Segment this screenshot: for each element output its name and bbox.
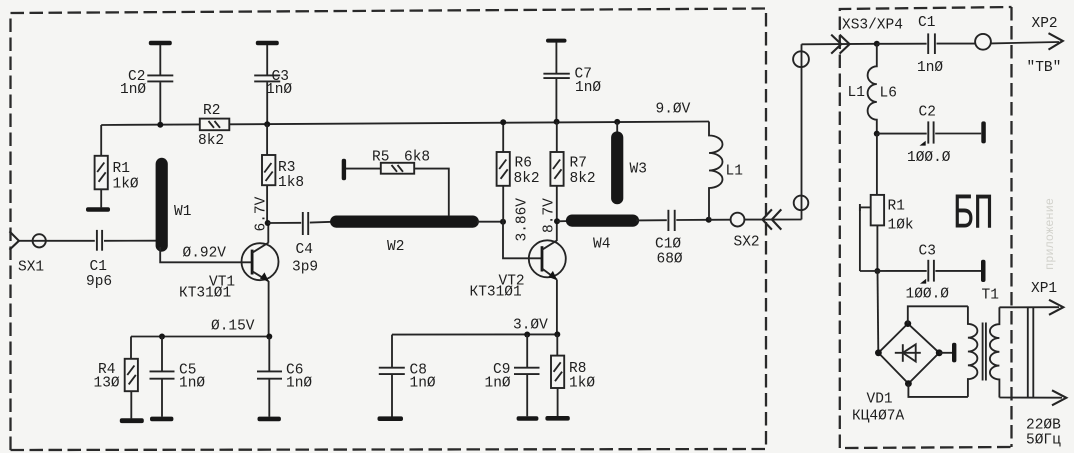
terminal bar C3 psu: [981, 260, 986, 282]
node C6 emitter: [266, 334, 272, 340]
rail 9.0V top bus left segment: [101, 123, 200, 126]
svg-text:R6: R6: [515, 156, 532, 172]
svg-text:1nØ: 1nØ: [575, 80, 601, 96]
svg-text:1nØ: 1nØ: [485, 376, 511, 392]
ground bar under C8: [378, 416, 404, 421]
resistor R1 1k0: [95, 125, 139, 207]
capacitor C7 1n0: [543, 42, 601, 121]
svg-text:КЦ4Ø7А: КЦ4Ø7А: [852, 409, 905, 425]
svg-text:C2: C2: [919, 105, 936, 121]
node XS3 L6: [874, 41, 880, 47]
svg-text:SX1: SX1: [18, 260, 44, 276]
wire L6 node down to R1: [876, 134, 878, 195]
node C7 R7 bus: [554, 119, 560, 125]
svg-text:Т1: Т1: [982, 288, 999, 304]
resistor R3 1k8: [262, 124, 304, 223]
amplifier unit dashed enclosure: [11, 9, 767, 451]
svg-text:C1: C1: [918, 15, 935, 31]
chassis bar above C7: [546, 39, 567, 43]
svg-text:1ØØ.Ø: 1ØØ.Ø: [907, 150, 951, 166]
power supply unit dashed enclosure: [840, 7, 1012, 448]
svg-text:VD1: VD1: [867, 392, 893, 408]
resistor R5 6k8: [346, 150, 430, 174]
capacitor C5 1n0: [150, 337, 206, 417]
resistor R8 1k0: [551, 334, 595, 416]
capacitor C8 1n0: [379, 335, 436, 417]
wire W1 to VT1 base: [160, 247, 252, 262]
wire bridge right to terminal: [939, 352, 952, 354]
wire C10 to L1 node: [676, 219, 708, 221]
wire node to C4: [268, 222, 302, 224]
ground bar under C9: [517, 416, 539, 421]
ground bar under R8: [545, 416, 569, 421]
svg-text:3.86V: 3.86V: [515, 198, 531, 242]
resistor R7 8k2: [550, 122, 595, 222]
capacitor C6 1n0: [257, 337, 312, 417]
wire VT2 collector up: [556, 221, 558, 241]
svg-text:1nØ: 1nØ: [917, 60, 943, 76]
svg-text:L1: L1: [848, 85, 865, 101]
capacitor C10 680: [655, 210, 683, 268]
svg-text:1ØØ.Ø: 1ØØ.Ø: [906, 287, 950, 303]
mains plug XP1 lower prong: [999, 390, 1066, 405]
wire bridge top to transformer: [908, 306, 968, 323]
svg-text:1k8: 1k8: [278, 175, 304, 191]
cable loop lower: [794, 196, 809, 211]
svg-text:XP2: XP2: [1032, 16, 1058, 32]
node VT1 collector 6.7V: [265, 220, 271, 226]
svg-text:R7: R7: [570, 156, 587, 172]
svg-text:1nØ: 1nØ: [410, 376, 436, 392]
svg-text:22ØВ: 22ØВ: [1026, 418, 1061, 434]
mains plug XP1 upper prong: [999, 281, 1063, 315]
node R6 W2 base VT2: [500, 219, 506, 225]
transformer T1 primary: [968, 306, 978, 397]
svg-text:C1: C1: [90, 259, 107, 275]
ground bar under R1: [86, 207, 110, 212]
node L6 C2psu: [874, 131, 880, 137]
svg-text:13Ø: 13Ø: [94, 376, 120, 392]
stripline W3: [617, 138, 647, 199]
node C10 L1 SX2: [706, 217, 712, 223]
svg-text:C3: C3: [919, 244, 936, 260]
wire bridge bottom to transformer: [908, 384, 968, 397]
3.0V emitter line VT2: [392, 333, 557, 335]
node C9: [524, 332, 530, 338]
wire C1 to W1: [104, 240, 156, 242]
svg-text:1nØ: 1nØ: [286, 376, 312, 392]
cable loop upper: [793, 51, 809, 67]
stripline W4: [557, 221, 633, 253]
inductor L1/L6 psu: [848, 44, 897, 134]
capacitor C4 3p9: [292, 212, 318, 276]
svg-text:1nØ: 1nØ: [179, 376, 205, 392]
ground bar under C6: [258, 417, 281, 422]
capacitor C2 100.0 psu: [877, 105, 981, 167]
svg-text:R3: R3: [278, 160, 295, 176]
node VT2 collector 8.7V: [554, 218, 560, 224]
wire VT1 collector to node: [267, 223, 269, 243]
svg-text:6k8: 6k8: [404, 150, 430, 166]
wire W2 to node: [477, 221, 503, 223]
svg-text:C4: C4: [296, 242, 313, 258]
coax cable top run: [802, 43, 877, 46]
node W3 bus: [614, 119, 620, 125]
svg-text:5ØГц: 5ØГц: [1026, 433, 1061, 449]
transistor VT2 KT3101: [470, 240, 566, 300]
ground bar under C5: [150, 417, 173, 422]
node R6 bus: [500, 119, 506, 125]
svg-text:3.ØV: 3.ØV: [513, 318, 548, 334]
ground bar under R4: [120, 418, 144, 423]
chassis bar above C3: [256, 41, 279, 45]
svg-text:68Ø: 68Ø: [657, 252, 683, 268]
node C5: [159, 334, 165, 340]
svg-text:XP1: XP1: [1031, 281, 1057, 297]
capacitor C2 1n0: [120, 45, 173, 125]
connector SX1: [10, 231, 46, 275]
svg-text:R5: R5: [372, 150, 389, 166]
0.15V emitter line VT1: [131, 336, 270, 338]
svg-text:W1: W1: [174, 204, 191, 220]
svg-text:"ТВ": "ТВ": [1027, 60, 1062, 76]
label 220V 50Hz: [1026, 418, 1061, 449]
resistor R2 8k2: [198, 103, 229, 149]
svg-text:9p6: 9p6: [86, 274, 112, 290]
wire VT2 emitter down: [556, 280, 558, 335]
svg-text:R1: R1: [113, 161, 130, 177]
coax cable riser: [801, 44, 803, 219]
diode bridge VD1 KC407A: [852, 320, 943, 424]
chassis bar above C2: [149, 41, 172, 45]
svg-text:1nØ: 1nØ: [120, 82, 146, 98]
svg-text:9.ØV: 9.ØV: [656, 102, 691, 118]
svg-text:8k2: 8k2: [198, 133, 224, 149]
node C2 bus: [157, 122, 163, 128]
svg-text:БП: БП: [953, 185, 994, 242]
cable loop at XP2: [975, 34, 991, 50]
svg-text:C1Ø: C1Ø: [655, 237, 681, 253]
svg-text:1Øk: 1Øk: [888, 218, 914, 234]
inductor L1: [709, 122, 743, 220]
svg-text:XS3/XP4: XS3/XP4: [842, 18, 903, 34]
svg-text:L6: L6: [880, 86, 897, 102]
svg-text:3p9: 3p9: [292, 260, 318, 276]
terminal bar of R5: [342, 159, 346, 181]
wire VT1 emitter down: [268, 281, 270, 337]
rail 9.0V top bus right segment: [229, 122, 709, 125]
connector SX2: [709, 213, 760, 251]
svg-text:1kØ: 1kØ: [113, 177, 139, 193]
transformer T1 secondary: [990, 307, 1000, 397]
svg-text:1kØ: 1kØ: [569, 376, 595, 392]
wire node to C1psu: [877, 43, 927, 45]
wire W4 to C10: [636, 219, 667, 221]
svg-text:КТ31Ø1: КТ31Ø1: [470, 285, 522, 301]
svg-text:8k2: 8k2: [570, 171, 596, 187]
svg-text:8k2: 8k2: [514, 171, 540, 187]
capacitor C1 1n0 psu: [917, 15, 943, 76]
wire and arrow to XP2: [991, 16, 1063, 76]
capacitor C3 1n0: [254, 45, 292, 124]
svg-text:КТ31Ø1: КТ31Ø1: [179, 286, 231, 302]
node R8 emitter: [554, 331, 560, 337]
svg-text:W4: W4: [593, 237, 610, 253]
svg-text:SX2: SX2: [734, 235, 760, 251]
node C3 bus: [264, 121, 270, 127]
capacitor C1 9p6: [86, 230, 112, 290]
svg-text:W2: W2: [387, 239, 404, 255]
resistor R4 130: [94, 337, 138, 419]
node R1 C3 psu: [874, 268, 880, 274]
transistor VT1 KT3101: [179, 243, 279, 302]
wire C4 to W2: [310, 221, 332, 224]
terminal bar C2 psu: [981, 121, 986, 143]
svg-text:R2: R2: [203, 103, 220, 119]
svg-text:L1: L1: [726, 164, 743, 180]
svg-text:Ø.15V: Ø.15V: [211, 319, 255, 335]
stripline W1: [162, 164, 192, 246]
svg-text:приложение: приложение: [1043, 198, 1057, 270]
stub wire bus to W3: [616, 122, 618, 138]
terminal bar bridge: [952, 343, 956, 363]
stripline W2: [336, 222, 473, 255]
coax plug chevrons at XS3/XP4: [831, 35, 849, 54]
wire R5 to W2: [414, 169, 449, 216]
svg-text:Ø.92V: Ø.92V: [183, 246, 227, 262]
wire C1psu to loop: [937, 43, 976, 45]
mains plug XP1 interface lines: [1028, 307, 1034, 397]
wire SX1 to C1: [19, 240, 95, 242]
transformer T1 core: [983, 323, 986, 381]
svg-text:8.7V: 8.7V: [542, 198, 558, 233]
svg-text:W3: W3: [630, 162, 647, 178]
coax plug chevrons at SX2: [762, 209, 781, 229]
svg-text:1nØ: 1nØ: [266, 82, 292, 98]
svg-text:R1: R1: [888, 199, 905, 215]
wire SX2 to coax: [744, 219, 801, 221]
wire node down to bridge: [877, 271, 880, 353]
resistor R6 8k2: [497, 122, 540, 221]
wire node to VT2 base: [503, 222, 542, 259]
capacitor C3 100.0 psu: [860, 244, 981, 303]
svg-text:6.7V: 6.7V: [254, 196, 270, 231]
capacitor C9 1n0: [485, 335, 540, 417]
resistor R1 10k psu trimmer: [860, 195, 914, 271]
